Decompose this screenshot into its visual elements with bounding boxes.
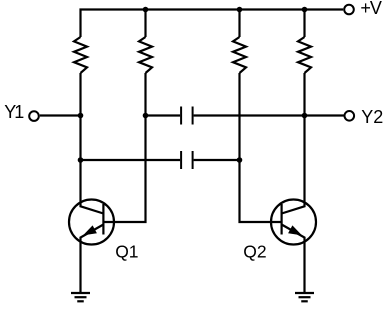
svg-text:+V: +V <box>360 0 382 18</box>
svg-text:Q2: Q2 <box>243 242 266 262</box>
svg-text:Y2: Y2 <box>361 107 383 127</box>
svg-text:Q1: Q1 <box>115 241 138 261</box>
svg-text:Y1: Y1 <box>4 102 24 122</box>
